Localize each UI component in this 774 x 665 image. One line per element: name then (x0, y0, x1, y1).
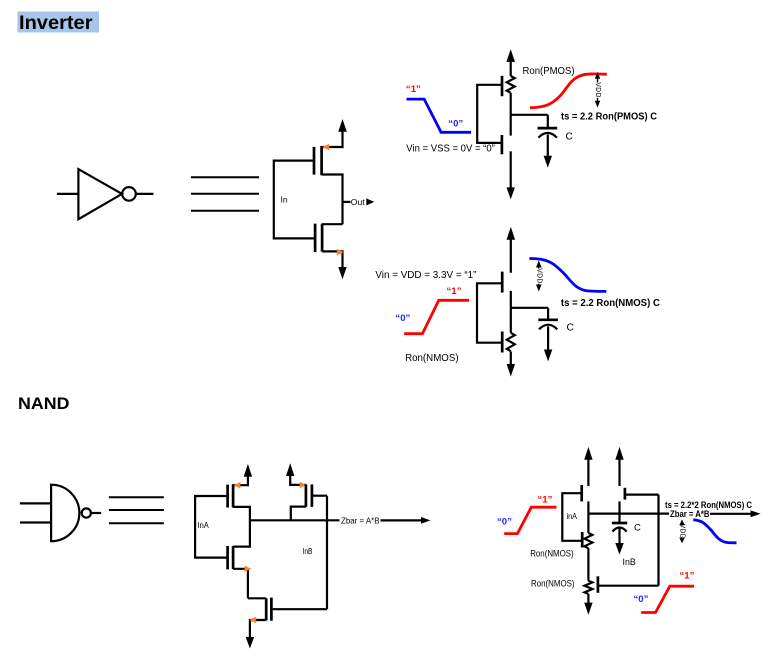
output waveform falling (blue S curve) (529, 258, 606, 291)
NAND circuit: NMOS A gate bar (581, 532, 584, 548)
wire M1 source to VDD (322, 131, 343, 147)
capacitor C3 top plate (612, 522, 627, 525)
transistor NMOS B channel bar (265, 598, 268, 620)
NAND circuit: NMOS B gate bar (597, 576, 600, 593)
wire M1 drain to output node (322, 175, 343, 225)
circuit 2 PMOS gate bar (501, 272, 504, 293)
wire resistor to ground (circuit 2) (510, 352, 512, 365)
wire output arrow (NAND circuit) (710, 513, 751, 515)
wire Out stub (343, 201, 351, 203)
svg-text:C: C (566, 132, 574, 143)
circuit 2 input waveform (red rising edge) (404, 300, 469, 333)
svg-text:“1”: “1” (680, 571, 695, 582)
circuit 1 PMOS gate bar (501, 76, 504, 96)
svg-text:Ron(NMOS): Ron(NMOS) (405, 353, 459, 364)
svg-text:ts = 2.2 Ron(NMOS) C: ts = 2.2 Ron(NMOS) C (561, 298, 661, 309)
Out arrowhead (366, 198, 374, 205)
wire M2 drain to output node (322, 223, 342, 225)
svg-text:Zbar = A*B: Zbar = A*B (670, 509, 710, 519)
circuit 2 PMOS channel upper segment (off) (510, 239, 512, 273)
NAND circuit: PMOS A gate bar (580, 485, 583, 501)
equivalence lines (NAND) (109, 497, 164, 523)
wire VDD to resistor (510, 61, 512, 76)
VDD arrow (circuit 2) (507, 227, 516, 240)
svg-text:“0”: “0” (395, 313, 410, 324)
ground arrow (capacitor C3) (615, 543, 623, 555)
VDD arrow (NAND PMOS B) (286, 463, 294, 476)
capacitor C3 lead (618, 514, 620, 523)
capacitor C2 top plate (538, 318, 558, 321)
ground arrow (circuit 1) (507, 187, 515, 199)
title highlight (18, 12, 100, 33)
NAND circuit: InB net vertical (657, 495, 659, 586)
inverter gate symbol: triangle (78, 169, 122, 219)
VDD arrow (circuit 1) (506, 49, 515, 62)
VDD arrow (inverter PMOS) (338, 119, 347, 132)
NAND circuit: PMOS A source segment (587, 459, 589, 486)
VDD span arrow down (circuit 2) (536, 285, 542, 292)
svg-text:ts = 2.2*2 Ron(NMOS) C: ts = 2.2*2 Ron(NMOS) C (665, 500, 752, 510)
wire M2 source to ground (322, 251, 342, 267)
junction dot NMOS B source (orange) (249, 617, 256, 623)
capacitor C2 lead (547, 308, 549, 320)
svg-text:C: C (567, 323, 575, 334)
svg-text:Zbar = A*B: Zbar = A*B (341, 515, 380, 525)
svg-text:InB: InB (623, 557, 636, 567)
svg-text:“1”: “1” (538, 495, 553, 506)
ground arrow (inverter NMOS) (338, 267, 346, 279)
NAND gate symbol: output wire (91, 512, 101, 514)
wire node to resistor (510, 308, 512, 333)
wire NMOS B drain (248, 597, 266, 599)
NAND gate symbol: body (51, 485, 79, 542)
capacitor C curved plate (538, 133, 557, 138)
svg-text:Vin = VDD = 3.3V = “1”: Vin = VDD = 3.3V = “1” (375, 270, 477, 281)
wire resistor B to ground (587, 594, 589, 603)
circuit 1 gate bus wire (477, 85, 502, 143)
resistor Ron(NMOS) B (584, 581, 592, 594)
NAND gate symbol: bubble (82, 508, 91, 517)
svg-text:VDD: VDD (679, 524, 686, 539)
junction dot PMOS A source (orange) (234, 482, 241, 488)
wire output node (NAND) (250, 519, 340, 521)
wire NMOS B source to ground (250, 620, 266, 638)
junction dot PMOS B source (orange) (300, 482, 307, 488)
wire PMOS B gate lead (312, 495, 327, 497)
svg-text:Out: Out (351, 197, 365, 207)
transistor PMOS B gate bar (311, 484, 314, 507)
NAND circuit: VDD arrow A (584, 447, 592, 460)
VDD span arrow down (circuit 1) (595, 101, 600, 108)
capacitor C lead (547, 115, 549, 128)
circuit 1 input waveform (blue falling edge) (407, 99, 472, 132)
svg-text:“0”: “0” (497, 516, 512, 527)
ground arrow (NAND circuit) (584, 603, 592, 615)
VDD arrow (NAND PMOS A) (244, 464, 252, 477)
circuit 2 NMOS gate bar (501, 332, 504, 353)
capacitor C top plate (538, 127, 558, 130)
circuit 1 NMOS gate bar (501, 135, 504, 154)
ground arrow (capacitor C2) (544, 350, 552, 362)
capacitor C2 curved plate (539, 325, 557, 330)
circuit 1 NMOS channel upper segment (off) (510, 115, 512, 136)
CMOS inverter: gate bus wire (274, 161, 315, 239)
wire PMOS A drain to output node (233, 507, 250, 520)
svg-text:Ron(PMOS): Ron(PMOS) (523, 66, 575, 77)
svg-text:“0”: “0” (634, 594, 649, 605)
NAND gate symbol: input wire A (20, 502, 51, 504)
NAND circuit: node to resistor A wire (587, 514, 589, 533)
transistor PMOS B channel bar (305, 484, 308, 507)
NAND gate symbol: input wire B (20, 521, 51, 523)
wire node to capacitor (511, 114, 548, 116)
resistor Ron(NMOS) A (584, 533, 592, 548)
NAND schematic: InA gate bus wire (195, 496, 227, 558)
junction dot PMOS source (orange) (322, 144, 329, 150)
transistor M2 NMOS gate bar (314, 224, 317, 253)
transistor M1 PMOS gate bar (313, 147, 316, 175)
svg-text:“0”: “0” (448, 118, 463, 129)
VDD span arrow down (NAND circuit) (679, 538, 684, 544)
wire PMOS A source to VDD (233, 476, 248, 486)
capacitor C2 bottom lead (547, 326, 549, 350)
capacitor C3 bottom lead (618, 529, 620, 544)
NAND circuit: output node wire (588, 512, 669, 514)
svg-text:InB: InB (303, 546, 313, 556)
ground arrow (capacitor C1) (544, 156, 552, 168)
wire resistor to node (510, 93, 512, 115)
svg-text:inA: inA (567, 511, 578, 521)
inverter gate symbol: output wire (136, 193, 154, 195)
svg-text:NAND: NAND (18, 395, 70, 413)
svg-text:“1”: “1” (406, 84, 421, 95)
svg-text:C: C (634, 523, 641, 534)
transistor NMOS A channel bar (232, 546, 235, 569)
wire NMOS B gate lead (271, 608, 327, 610)
circuit 1 NMOS channel lower segment to ground (510, 151, 512, 188)
inverter gate symbol: input wire (57, 193, 79, 195)
circuit 2 gate bus wire (477, 283, 502, 342)
NAND circuit: NMOS B gate lead (598, 585, 659, 587)
junction dot NMOS A source (orange) (245, 566, 252, 572)
svg-text:Ron(NMOS): Ron(NMOS) (530, 549, 574, 559)
wire NMOS A drain to node (233, 520, 250, 546)
output arrowhead (NAND) (421, 517, 430, 524)
VDD span arrow up (NAND circuit) (679, 520, 684, 526)
transistor M1 PMOS channel bar (320, 146, 323, 175)
NAND circuit: PMOS B drain segment (618, 501, 620, 513)
svg-text:“1”: “1” (447, 286, 462, 297)
circuit 2 PMOS channel lower segment (510, 291, 512, 308)
wire PMOS B drain to node (291, 507, 306, 521)
wire resistor A to resistor B (587, 548, 589, 581)
NAND circuit: inA gate bus (562, 493, 582, 541)
NAND circuit input waveform A (red rising) (504, 507, 556, 533)
equivalence lines (inverter) (191, 177, 259, 211)
output waveform rising (red S curve) (530, 74, 607, 108)
NAND circuit input waveform B (red rising) (641, 586, 694, 612)
wire node to capacitor (circuit 2) (511, 307, 548, 309)
resistor Ron(NMOS) (507, 333, 515, 351)
VDD span arrow up (circuit 1) (595, 72, 600, 79)
svg-text:VDD: VDD (594, 82, 601, 97)
NAND circuit: PMOS B gate bar (624, 488, 627, 500)
inverter gate symbol: bubble (122, 187, 136, 201)
transistor NMOS B gate bar (270, 598, 273, 621)
svg-text:In: In (281, 195, 288, 205)
NAND circuit: VDD arrow B (615, 447, 623, 460)
svg-text:ts = 2.2 Ron(PMOS) C: ts = 2.2 Ron(PMOS) C (561, 112, 658, 123)
VDD span arrow up (circuit 2) (536, 261, 542, 268)
transistor NMOS A gate bar (226, 546, 229, 569)
capacitor C bottom lead (547, 135, 549, 157)
NAND circuit: PMOS B gate lead (625, 494, 659, 496)
svg-text:Vin = VSS = 0V = “0”: Vin = VSS = 0V = “0” (406, 144, 495, 155)
ground arrow (circuit 2) (507, 364, 515, 377)
junction dot NMOS source (orange) (337, 249, 344, 255)
output waveform falling (blue S curve, NAND circuit) (693, 520, 736, 543)
svg-text:VDD: VDD (535, 268, 542, 283)
svg-text:Inverter: Inverter (19, 13, 93, 34)
output arrowhead (NAND circuit) (751, 510, 761, 517)
resistor Ron(PMOS) (507, 76, 515, 93)
transistor PMOS A gate bar (226, 485, 229, 508)
wire NMOS A source down (233, 569, 248, 599)
transistor M2 NMOS channel bar (321, 224, 324, 252)
VDD span shaft (circuit 1) (597, 76, 599, 104)
VDD span shaft (NAND circuit) (681, 523, 683, 541)
svg-text:InA: InA (198, 520, 209, 530)
wire PMOS B source (290, 475, 306, 485)
capacitor C3 curved plate (612, 528, 626, 532)
wire output arrow (NAND) (381, 519, 422, 521)
NAND circuit: PMOS B source segment (618, 459, 620, 486)
VDD span shaft (circuit 2) (538, 264, 540, 289)
ground arrow (NAND) (246, 637, 254, 649)
svg-text:Ron(NMOS): Ron(NMOS) (531, 579, 575, 589)
wire InB net vertical (326, 496, 328, 610)
NAND circuit: PMOS A drain segment (587, 501, 589, 513)
transistor PMOS A channel bar (232, 484, 235, 507)
